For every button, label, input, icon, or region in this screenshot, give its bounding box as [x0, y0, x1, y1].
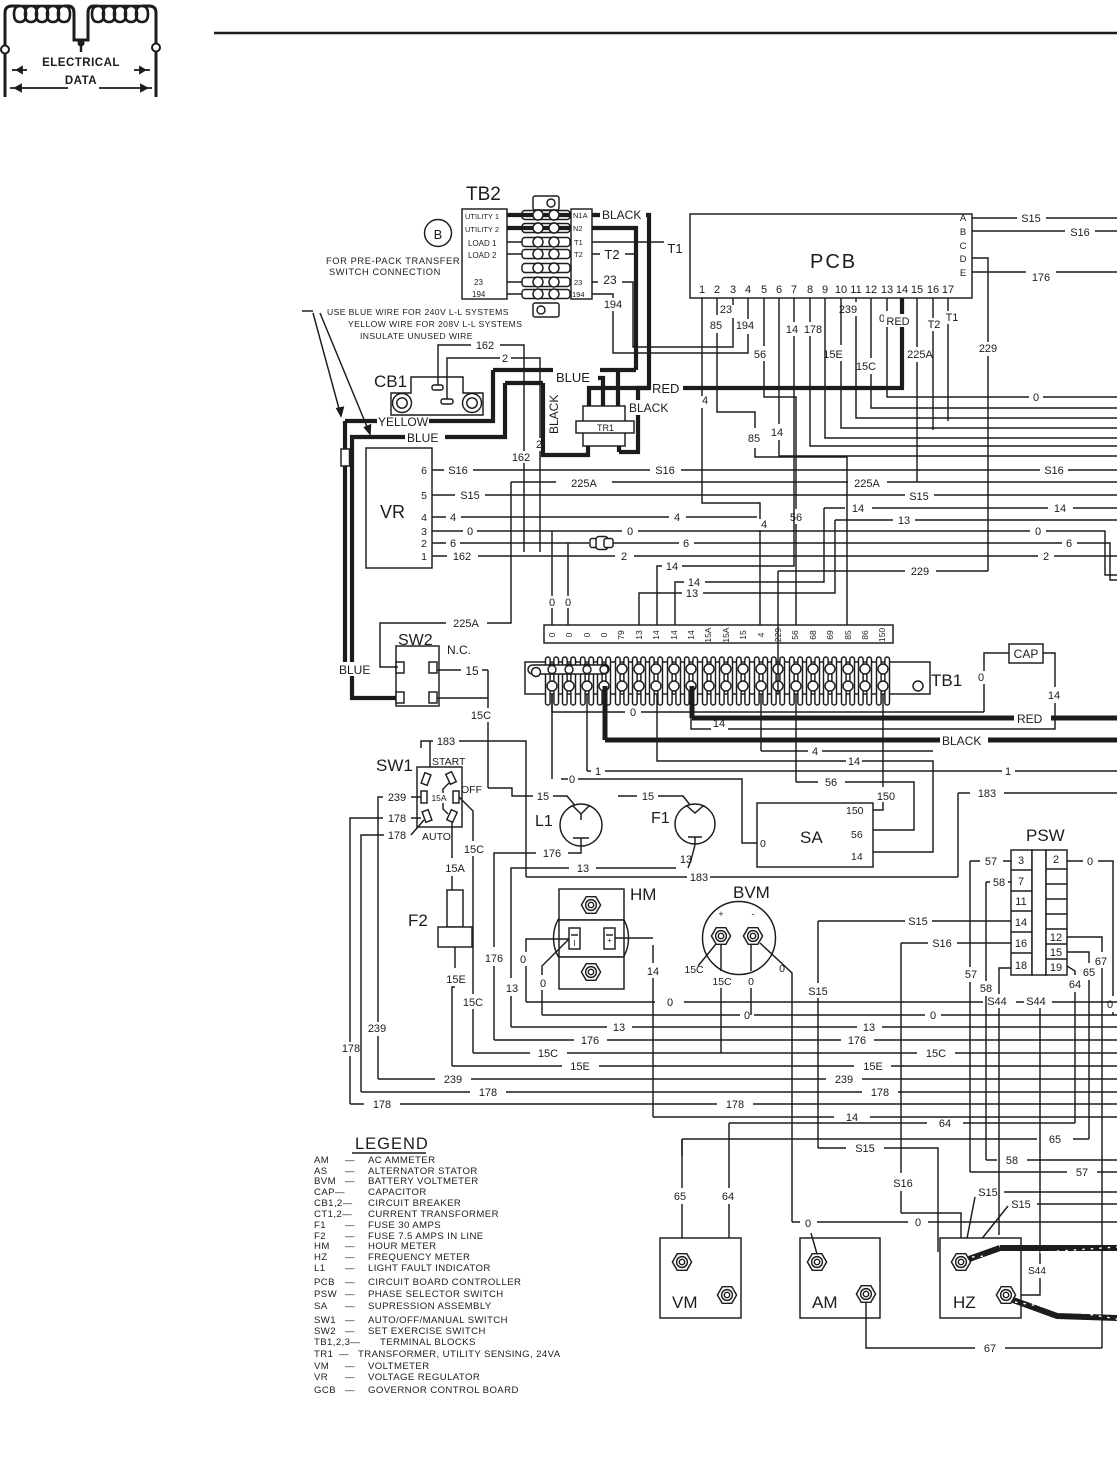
svg-text:N1A: N1A [573, 211, 588, 220]
svg-text:15C: 15C [538, 1048, 558, 1060]
wire 183 row mid [526, 876, 958, 878]
svg-text:17: 17 [942, 284, 954, 296]
svg-text:S15: S15 [978, 1187, 998, 1199]
wire pcb pin10 15E to right edge [841, 298, 1117, 428]
electrical data logo [5, 6, 156, 97]
logo terminals [1, 46, 9, 54]
wire row 176 [494, 1039, 1117, 1041]
svg-text:14: 14 [846, 1112, 858, 1124]
svg-text:11: 11 [1015, 896, 1026, 908]
svg-text:0: 0 [760, 838, 766, 850]
svg-text:T1: T1 [946, 312, 959, 324]
wire BVM plus 15C [698, 944, 716, 966]
svg-text:VOLTMETER: VOLTMETER [368, 1361, 430, 1372]
wire row 64 [729, 1122, 1075, 1124]
wire PSW 19 / 64 [1067, 966, 1075, 1123]
svg-text:239: 239 [839, 304, 857, 316]
svg-text:BATTERY VOLTMETER: BATTERY VOLTMETER [368, 1176, 479, 1187]
svg-text:PHASE SELECTOR SWITCH: PHASE SELECTOR SWITCH [368, 1289, 504, 1300]
svg-text:DATA: DATA [65, 75, 97, 87]
svg-text:56: 56 [790, 630, 800, 640]
svg-text:0: 0 [564, 632, 574, 637]
svg-text:3: 3 [1018, 855, 1024, 867]
svg-text:2: 2 [1043, 551, 1049, 563]
wire pcb pin9 to right edge [825, 298, 1117, 438]
wire 229 vertical from PCB D [987, 337, 989, 571]
wire HM plus 14 [615, 937, 653, 939]
wire row 162 / 2 (VR 1) [432, 555, 1117, 557]
svg-text:14: 14 [852, 503, 864, 515]
svg-text:AUTO: AUTO [422, 831, 451, 843]
wire pcb pin1 4 to TB1 [702, 298, 760, 625]
wire pcb pin3 23 to TB2 [592, 282, 733, 347]
svg-text:SW1: SW1 [314, 1315, 336, 1326]
wire PSW 15 / 65 [1067, 952, 1089, 1139]
svg-text:176: 176 [1032, 272, 1050, 284]
svg-text:HOUR METER: HOUR METER [368, 1241, 437, 1252]
svg-text:S44: S44 [1026, 996, 1046, 1008]
svg-text:—: — [345, 1301, 355, 1312]
wire SW1 178 auto [361, 820, 424, 1092]
wire L1 176 [494, 846, 581, 1040]
svg-text:SA: SA [800, 828, 823, 847]
svg-text:65: 65 [1049, 1134, 1061, 1146]
svg-text:178: 178 [388, 813, 406, 825]
wire 162 drop label [508, 451, 536, 463]
svg-text:150: 150 [877, 791, 895, 803]
wire PCB-A S15 [972, 217, 1117, 219]
svg-text:79: 79 [616, 630, 626, 640]
svg-text:TR1: TR1 [597, 423, 614, 433]
svg-text:14: 14 [1048, 690, 1060, 702]
svg-text:N.C.: N.C. [447, 643, 471, 657]
svg-text:14: 14 [686, 630, 696, 640]
svg-text:1: 1 [421, 551, 427, 563]
svg-text:13: 13 [898, 515, 910, 527]
svg-text:HM: HM [314, 1241, 330, 1252]
wire label RED pin14 [884, 314, 912, 327]
svg-text:4: 4 [761, 519, 767, 531]
svg-text:S16: S16 [893, 1178, 913, 1190]
svg-text:6: 6 [1066, 538, 1072, 550]
svg-text:T1: T1 [667, 241, 682, 256]
svg-text:16: 16 [927, 284, 939, 296]
svg-text:11: 11 [850, 284, 861, 296]
wire TB1 1 row [587, 694, 1117, 771]
svg-text:AM: AM [314, 1155, 329, 1166]
svg-text:85: 85 [748, 433, 760, 445]
svg-text:13: 13 [634, 630, 644, 640]
PCB circuit board controller [690, 214, 972, 298]
svg-text:225A: 225A [854, 478, 880, 490]
svg-text:4: 4 [812, 746, 818, 758]
wire CAP 0 [984, 653, 1009, 712]
svg-text:CAPACITOR: CAPACITOR [368, 1187, 427, 1198]
wire row 0 (bvm) [542, 1014, 1117, 1016]
svg-text:56: 56 [790, 512, 802, 524]
wire SW2 15 [437, 670, 488, 788]
svg-text:CURRENT TRANSFORMER: CURRENT TRANSFORMER [368, 1209, 499, 1220]
svg-text:15E: 15E [863, 1061, 883, 1073]
svg-text:—: — [345, 1263, 355, 1274]
wire row S16 (VR 6) [432, 469, 1117, 471]
coil right [92, 6, 148, 22]
svg-text:13: 13 [506, 983, 518, 995]
center tap [80, 40, 82, 52]
svg-text:86: 86 [860, 630, 870, 640]
wire pcb pin6 14 to right edge [779, 298, 1117, 456]
logo arrows [10, 67, 152, 91]
svg-text:0: 0 [748, 976, 754, 988]
svg-text:L1: L1 [535, 813, 553, 830]
svg-text:67: 67 [984, 1343, 996, 1355]
wire row S15 to HZ [818, 1148, 938, 1252]
svg-text:GCB: GCB [314, 1385, 336, 1396]
svg-text:6: 6 [450, 538, 456, 550]
svg-text:S15: S15 [808, 986, 828, 998]
svg-text:14: 14 [651, 630, 661, 640]
svg-text:12: 12 [865, 284, 877, 296]
svg-text:—: — [345, 1220, 355, 1231]
wire row 13 (TB1 to right edge) [835, 519, 1117, 521]
svg-text:176: 176 [543, 848, 561, 860]
svg-text:15: 15 [465, 664, 479, 678]
svg-text:VOLTAGE REGULATOR: VOLTAGE REGULATOR [368, 1372, 480, 1383]
svg-text:S16: S16 [1070, 227, 1090, 239]
heavy wire blue TR1 [493, 368, 636, 372]
svg-text:USE BLUE WIRE FOR 240V L-L SYS: USE BLUE WIRE FOR 240V L-L SYSTEMS [327, 307, 509, 317]
svg-text:INSULATE UNUSED WIRE: INSULATE UNUSED WIRE [360, 331, 473, 341]
svg-text:10: 10 [835, 284, 847, 296]
wire CAP 14 [691, 653, 1055, 729]
svg-text:183: 183 [978, 788, 996, 800]
svg-text:E: E [960, 268, 966, 279]
wire row 6 (VR 2) [432, 543, 1117, 580]
svg-text:—: — [345, 1361, 355, 1372]
svg-text:15E: 15E [570, 1061, 590, 1073]
svg-text:0: 0 [978, 672, 984, 684]
svg-text:13: 13 [613, 1022, 625, 1034]
svg-text:15C: 15C [926, 1048, 946, 1060]
svg-text:FUSE 30 AMPS: FUSE 30 AMPS [368, 1220, 441, 1231]
svg-text:PSW: PSW [314, 1289, 338, 1300]
wire CB1 162 [438, 345, 524, 552]
wire AM 67 [866, 1303, 1102, 1348]
coil left [5, 6, 20, 50]
svg-text:LOAD 2: LOAD 2 [468, 251, 497, 260]
frequency meter HZ [940, 1238, 1021, 1318]
wire row 239 [378, 1078, 1117, 1080]
svg-text:AM: AM [812, 1293, 838, 1312]
svg-text:15: 15 [537, 791, 549, 803]
wire 15 to L1 [488, 788, 578, 809]
svg-text:2: 2 [1053, 854, 1059, 866]
svg-text:57: 57 [965, 969, 977, 981]
wire PSW 16 / S16 [901, 942, 1011, 944]
wire pcb pin11 239 to right edge [856, 298, 1117, 418]
svg-text:—: — [345, 1155, 355, 1166]
svg-text:0: 0 [805, 1218, 811, 1230]
svg-text:183: 183 [437, 736, 455, 748]
svg-text:56: 56 [754, 349, 766, 361]
svg-text:SW1: SW1 [376, 756, 413, 775]
svg-text:7: 7 [1018, 876, 1024, 888]
svg-text:239: 239 [835, 1074, 853, 1086]
wire row 14 [653, 1116, 1117, 1118]
svg-text:0: 0 [930, 1010, 936, 1022]
wire pcb pin17 T1 [947, 298, 949, 421]
svg-text:START: START [432, 756, 466, 768]
svg-text:14: 14 [848, 756, 860, 768]
svg-text:64: 64 [939, 1118, 951, 1130]
voltage regulator VR [366, 448, 432, 568]
heavy wire BLACK row [605, 738, 1117, 743]
wire F1 13 [511, 845, 695, 1027]
ammeter AM [800, 1238, 880, 1318]
svg-text:T2: T2 [574, 250, 583, 259]
svg-text:—: — [345, 1315, 355, 1326]
svg-text:CIRCUIT BREAKER: CIRCUIT BREAKER [368, 1198, 461, 1209]
svg-text:AC AMMETER: AC AMMETER [368, 1155, 435, 1166]
svg-text:18: 18 [1015, 960, 1027, 972]
svg-text:N2: N2 [573, 224, 583, 233]
svg-text:15C: 15C [684, 964, 704, 976]
svg-text:B: B [434, 227, 443, 242]
wire PSW 18 / S44 [999, 968, 1011, 1235]
wire PSW 14 / S15 [818, 920, 1011, 922]
svg-text:14: 14 [771, 427, 783, 439]
svg-text:0: 0 [582, 632, 592, 637]
TB2 bolt strip [522, 196, 570, 317]
svg-text:162: 162 [512, 452, 530, 464]
svg-text:0: 0 [667, 997, 673, 1009]
svg-text:4: 4 [674, 512, 680, 524]
svg-text:S16: S16 [655, 465, 675, 477]
svg-text:14: 14 [851, 851, 863, 863]
svg-text:BVM: BVM [314, 1176, 336, 1187]
svg-text:S16: S16 [1044, 465, 1064, 477]
svg-text:57: 57 [985, 856, 997, 868]
svg-text:VR: VR [380, 502, 405, 522]
svg-text:TB2: TB2 [466, 184, 501, 205]
svg-text:5: 5 [421, 490, 427, 502]
svg-text:15: 15 [738, 630, 748, 640]
svg-text:0: 0 [1033, 392, 1039, 404]
svg-text:162: 162 [476, 340, 494, 352]
svg-text:SET EXERCISE SWITCH: SET EXERCISE SWITCH [368, 1326, 486, 1337]
wire row 4 (VR 4) [432, 516, 757, 518]
wire row 13 [511, 1026, 1117, 1028]
svg-text:YELLOW WIRE FOR 208V L-L SYSTE: YELLOW WIRE FOR 208V L-L SYSTEMS [348, 319, 522, 329]
PCB terminal letters A-E [960, 213, 967, 279]
wire PSW 2 / 0 [1067, 861, 1113, 1015]
wire row 15E [452, 1065, 1117, 1067]
wire PSW 12 / 67 [1067, 937, 1102, 1348]
wire pcb pin4 194 to TB2 [592, 294, 748, 353]
svg-text:16: 16 [1015, 938, 1027, 950]
wire PCB-E 176 [972, 271, 1117, 273]
svg-text:0: 0 [569, 774, 575, 786]
wire PSW 3 / 57 [970, 860, 1011, 862]
svg-text:150: 150 [846, 805, 864, 817]
wire SW1 off 15C [459, 797, 473, 1053]
PCB pin numbers 1-17 [699, 284, 954, 296]
wire TB1 56 to SA [778, 625, 796, 782]
svg-text:0: 0 [1035, 526, 1041, 538]
wire pcb pin15 225A [916, 298, 918, 482]
svg-text:BVM: BVM [733, 883, 770, 902]
wire row 0 (hm) [526, 1001, 1117, 1003]
svg-text:23: 23 [720, 304, 732, 316]
svg-text:-: - [752, 909, 755, 919]
svg-text:15C: 15C [856, 361, 876, 373]
svg-text:14: 14 [669, 630, 679, 640]
wire SW1 183 [421, 741, 526, 877]
svg-text:23: 23 [574, 278, 582, 287]
svg-text:—: — [339, 1349, 349, 1360]
svg-text:S44: S44 [1028, 1266, 1046, 1277]
wire TB1 4 row [761, 694, 933, 751]
svg-text:178: 178 [871, 1087, 889, 1099]
svg-text:15C: 15C [464, 844, 484, 856]
wire HM minus 0 [526, 939, 569, 1002]
svg-text:LEGEND: LEGEND [355, 1135, 429, 1153]
svg-text:2: 2 [502, 353, 508, 365]
svg-text:65: 65 [674, 1191, 686, 1203]
TB1 0 bus bar [528, 665, 608, 674]
svg-text:BLUE: BLUE [339, 663, 370, 677]
heavy wire N1A black [345, 215, 902, 698]
svg-text:—: — [345, 1372, 355, 1383]
svg-text:194: 194 [472, 290, 486, 299]
svg-text:T2: T2 [604, 247, 619, 262]
wire row 178 b [350, 1103, 1117, 1105]
heavy wire yellow CB1 [343, 421, 347, 449]
svg-text:SUPRESSION ASSEMBLY: SUPRESSION ASSEMBLY [368, 1301, 492, 1312]
svg-text:68: 68 [808, 630, 818, 640]
svg-text:GOVERNOR CONTROL BOARD: GOVERNOR CONTROL BOARD [368, 1385, 519, 1396]
svg-text:LOAD 1: LOAD 1 [468, 239, 497, 248]
svg-text:TB1: TB1 [931, 671, 962, 690]
svg-text:VM: VM [672, 1293, 698, 1312]
wire pcb pin5 56 to TB1 [764, 298, 796, 625]
svg-text:14: 14 [647, 966, 659, 978]
svg-text:0: 0 [520, 954, 526, 966]
svg-text:2: 2 [421, 538, 427, 550]
svg-text:23: 23 [603, 273, 617, 287]
wire 15 to F1 [618, 796, 694, 810]
svg-text:67: 67 [1095, 956, 1107, 968]
inline connector on yellow wire [341, 449, 350, 466]
svg-text:0: 0 [599, 632, 609, 637]
svg-text:D: D [960, 254, 967, 265]
svg-text:176: 176 [581, 1035, 599, 1047]
wire TB1 0 to SA left [552, 694, 757, 843]
svg-text:TERMINAL BLOCKS: TERMINAL BLOCKS [380, 1337, 476, 1348]
svg-text:—: — [345, 1385, 355, 1396]
svg-text:225A: 225A [453, 618, 479, 630]
svg-text:4: 4 [450, 512, 456, 524]
wire row 178 [361, 1091, 1117, 1093]
svg-text:162: 162 [453, 551, 471, 563]
wire SW1 178 [350, 818, 421, 1104]
svg-text:65: 65 [1083, 967, 1095, 979]
svg-text:3: 3 [421, 526, 427, 538]
transformer TR1 [583, 406, 625, 446]
wire SW1 239 [378, 797, 421, 1079]
svg-text:13: 13 [881, 284, 893, 296]
note leader arrows [313, 313, 341, 416]
svg-text:58: 58 [1006, 1155, 1018, 1167]
svg-text:—: — [345, 1326, 355, 1337]
wire TB2 left to strip rows [507, 242, 522, 294]
svg-text:S15: S15 [1021, 213, 1041, 225]
wire TB2 T1 [592, 241, 664, 243]
svg-text:S15: S15 [460, 490, 480, 502]
svg-text:CT1,2—: CT1,2— [314, 1209, 352, 1220]
svg-text:14: 14 [1054, 503, 1066, 515]
svg-text:HZ: HZ [953, 1293, 976, 1312]
wire label BLACK (N1A) [601, 208, 645, 221]
svg-text:14: 14 [786, 324, 798, 336]
heavy wire RED row [692, 716, 1117, 721]
svg-text:15: 15 [1050, 947, 1062, 959]
svg-text:YELLOW: YELLOW [378, 415, 429, 429]
svg-text:BLACK: BLACK [629, 401, 668, 415]
svg-text:176: 176 [485, 953, 503, 965]
svg-text:2: 2 [621, 551, 627, 563]
svg-text:UTILITY 1: UTILITY 1 [465, 212, 499, 221]
wire 183 row right [958, 792, 1117, 794]
wire label BLACK (vertical gap) [628, 400, 670, 415]
wire TB1 0 row [552, 694, 984, 712]
svg-text:VM: VM [314, 1361, 329, 1372]
heavy wire blue to SW2 [352, 676, 398, 698]
wire label YELLOW [377, 415, 429, 428]
svg-text:194: 194 [572, 290, 585, 299]
wire pcb pin8 178 to right edge [810, 298, 1117, 446]
svg-text:178: 178 [373, 1099, 391, 1111]
wire TB2 T2 [592, 253, 636, 255]
heavy wire red TR1 to PCB 14 [589, 388, 650, 406]
svg-text:6: 6 [421, 465, 427, 477]
svg-text:15E: 15E [823, 349, 843, 361]
svg-text:14: 14 [713, 718, 725, 730]
svg-text:194: 194 [604, 299, 622, 311]
svg-text:7: 7 [791, 284, 797, 296]
wire row 58 [986, 1159, 1117, 1161]
svg-text:13: 13 [863, 1022, 875, 1034]
wire pcb pin2 85 [717, 298, 847, 625]
svg-text:0: 0 [627, 526, 633, 538]
svg-text:183: 183 [690, 872, 708, 884]
svg-text:4: 4 [421, 512, 427, 524]
svg-text:AUTO/OFF/MANUAL SWITCH: AUTO/OFF/MANUAL SWITCH [368, 1315, 508, 1326]
wire VM 65 64 labels in mid [681, 1139, 683, 1156]
svg-text:4: 4 [702, 395, 708, 407]
svg-text:S15: S15 [909, 491, 929, 503]
svg-text:229: 229 [979, 343, 997, 355]
svg-text:HM: HM [630, 885, 656, 904]
svg-text:F1: F1 [314, 1220, 326, 1231]
svg-text:15C: 15C [471, 710, 491, 722]
svg-text:BLACK: BLACK [602, 208, 641, 222]
svg-text:CB1,2—: CB1,2— [314, 1198, 353, 1209]
svg-text:13: 13 [686, 588, 698, 600]
wire row 0 (VR 3) [432, 531, 1117, 575]
svg-text:S15: S15 [855, 1143, 875, 1155]
svg-text:178: 178 [388, 830, 406, 842]
